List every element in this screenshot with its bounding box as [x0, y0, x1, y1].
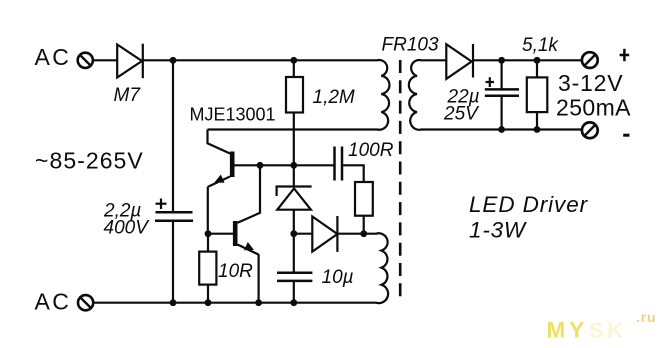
svg-text:AC: AC [35, 289, 72, 315]
svg-text:100R: 100R [348, 140, 394, 161]
svg-text:FR103: FR103 [382, 34, 439, 55]
svg-text:1,2M: 1,2M [313, 87, 355, 108]
svg-text:~85-265V: ~85-265V [35, 148, 144, 174]
svg-text:10µ: 10µ [322, 267, 354, 288]
svg-text:LED Driver: LED Driver [469, 192, 589, 217]
svg-text:.ru: .ru [636, 309, 656, 325]
svg-text:3-12V: 3-12V [558, 70, 623, 96]
svg-text:MJE13001: MJE13001 [190, 105, 276, 125]
svg-text:250mA: 250mA [556, 94, 631, 120]
svg-text:400V: 400V [104, 218, 151, 239]
svg-text:AC: AC [35, 44, 72, 70]
svg-text:SK: SK [589, 318, 626, 343]
svg-text:10R: 10R [218, 261, 253, 282]
svg-text:M7: M7 [114, 85, 142, 106]
svg-text:5,1k: 5,1k [522, 35, 559, 56]
svg-text:MY: MY [547, 318, 589, 343]
svg-text:1-3W: 1-3W [469, 217, 527, 242]
svg-text:25V: 25V [443, 103, 480, 124]
